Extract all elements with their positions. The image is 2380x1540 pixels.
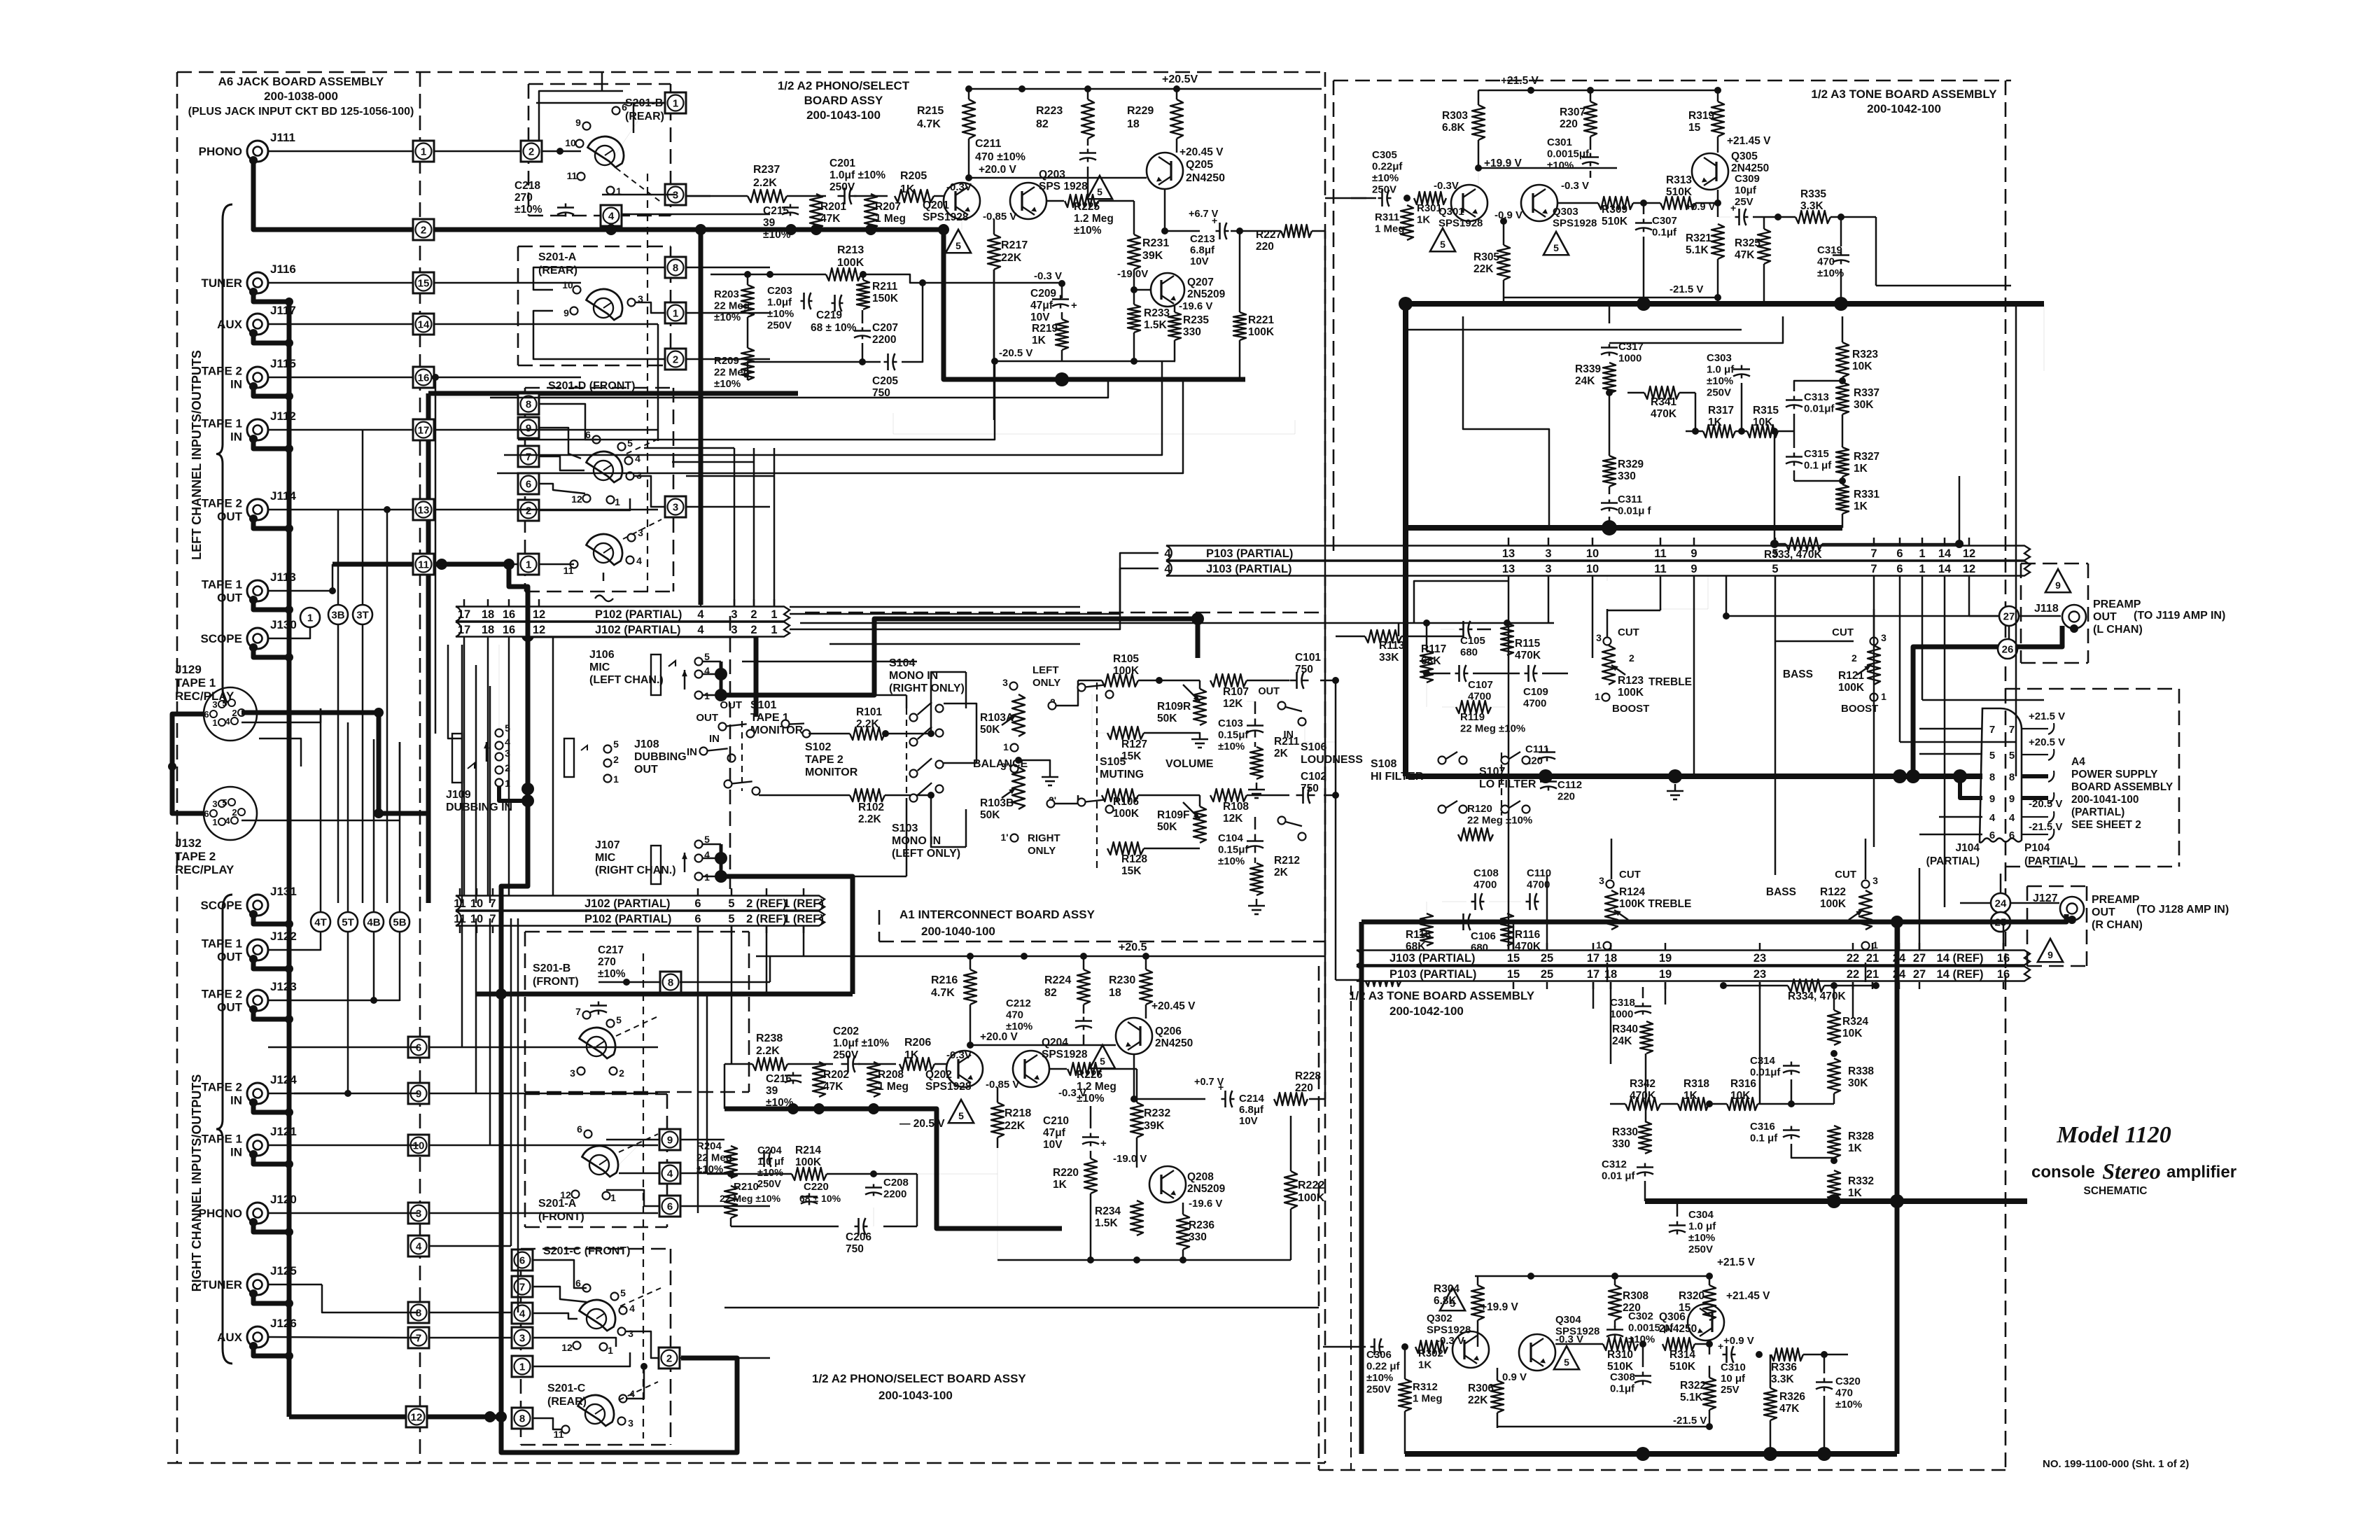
svg-text:-0.3V: -0.3V (1434, 180, 1459, 192)
svg-text:S201-C: S201-C (547, 1382, 586, 1394)
svg-text:C307: C307 (1652, 215, 1677, 227)
svg-text:6: 6 (1896, 547, 1903, 560)
wire bold phono J111 feed (249, 156, 258, 164)
svg-text:+20.45 V: +20.45 V (1151, 1000, 1196, 1012)
svg-text:J116: J116 (270, 262, 296, 276)
svg-text:27: 27 (1913, 952, 1926, 965)
connector pin 4 S201-B (601, 205, 622, 226)
svg-text:22: 22 (1847, 952, 1859, 965)
svg-text:3: 3 (1545, 563, 1551, 575)
svg-text:4: 4 (416, 1241, 422, 1253)
resistor R231 (1128, 234, 1140, 269)
assembly box S201-C group (521, 1248, 671, 1250)
svg-text:7: 7 (2009, 724, 2015, 736)
svg-text:10K: 10K (1842, 1028, 1863, 1039)
svg-text:P103 (PARTIAL): P103 (PARTIAL) (1389, 968, 1476, 981)
svg-text:510K: 510K (1666, 186, 1693, 198)
wavy break (595, 596, 613, 602)
svg-text:R224: R224 (1044, 974, 1071, 986)
svg-text:J127: J127 (2033, 892, 2058, 904)
capacitor C302 (1606, 1329, 1623, 1331)
wire +20 rail bottom q202 (970, 1044, 1116, 1046)
svg-text:J102 (PARTIAL): J102 (PARTIAL) (584, 897, 671, 910)
svg-text:R328: R328 (1848, 1130, 1874, 1142)
svg-text:-19.6 V: -19.6 V (1189, 1198, 1222, 1210)
svg-text:R310: R310 (1607, 1349, 1633, 1361)
rotary switch S201-B rear (585, 130, 630, 169)
svg-text:47μf: 47μf (1043, 1127, 1066, 1139)
svg-text:C106: C106 (1471, 930, 1496, 942)
resistor R341 (1644, 386, 1679, 399)
svg-text:-21.5 V: -21.5 V (1669, 283, 1703, 295)
svg-text:33K: 33K (1379, 652, 1399, 664)
wire (680, 1357, 770, 1359)
wire volume pot links (1199, 680, 1201, 689)
wire tone mid columns (1842, 316, 1844, 342)
svg-text:750: 750 (872, 387, 890, 399)
svg-text:14: 14 (1938, 547, 1952, 560)
svg-text:750: 750 (846, 1243, 864, 1255)
svg-text:(TO J119 AMP IN): (TO J119 AMP IN) (2134, 610, 2225, 622)
svg-text:S103: S103 (892, 822, 918, 834)
jack J124 TAPE 2 IN (247, 1083, 268, 1104)
wire C217 net (598, 981, 660, 983)
svg-text:TAPE 2: TAPE 2 (175, 850, 216, 863)
svg-text:0.01 μf: 0.01 μf (1602, 1170, 1636, 1182)
svg-text:R324: R324 (1842, 1016, 1868, 1028)
resistor R322 (1703, 1378, 1716, 1410)
capacitor C208 (865, 1186, 882, 1189)
svg-text:25V: 25V (1721, 1384, 1739, 1396)
svg-text:C206: C206 (846, 1231, 871, 1243)
svg-text:250V: 250V (757, 1179, 781, 1190)
svg-text:C103: C103 (1218, 717, 1243, 729)
wire scope drop (268, 627, 310, 638)
svg-text:8: 8 (2009, 771, 2015, 783)
svg-text:RIGHT CHANNEL INPUTS/OUTPUTS: RIGHT CHANNEL INPUTS/OUTPUTS (190, 1074, 204, 1292)
svg-text:TAPE 2: TAPE 2 (202, 988, 242, 1001)
node 25 overlay (1991, 912, 2010, 932)
svg-text:+21.5 V: +21.5 V (2029, 710, 2065, 722)
svg-text:±10%: ±10% (1218, 855, 1245, 867)
wire S201-B to pins (615, 112, 671, 155)
svg-text:4: 4 (1164, 563, 1171, 575)
svg-text:J107: J107 (595, 839, 620, 851)
svg-text:4: 4 (608, 211, 615, 223)
wire power supply stubs (2022, 728, 2048, 729)
wire bottom phono drop verticals (697, 926, 699, 1213)
svg-text:1K: 1K (1708, 416, 1723, 428)
wire (724, 1064, 726, 1109)
svg-text:9: 9 (2047, 949, 2053, 960)
wire (790, 553, 1158, 614)
svg-text:2K: 2K (1274, 867, 1289, 878)
capacitor C213 (1219, 223, 1221, 239)
svg-text:R337: R337 (1854, 387, 1879, 399)
svg-text:-19.6 V: -19.6 V (1179, 300, 1212, 312)
svg-text:R109R: R109R (1157, 701, 1191, 713)
svg-text:R205: R205 (900, 170, 927, 182)
svg-text:R323: R323 (1852, 349, 1878, 360)
wire (680, 981, 770, 983)
svg-text:26: 26 (2002, 644, 2014, 656)
svg-text:11: 11 (563, 565, 574, 576)
wire tone feeder lower (2003, 922, 2005, 951)
svg-text:12K: 12K (1223, 813, 1243, 825)
wire volume feeds (1052, 680, 1078, 706)
wire bold bottom bus (501, 1358, 737, 1452)
wire tone feeder (1774, 576, 1777, 875)
svg-text:510K: 510K (1669, 1361, 1696, 1373)
resistor R302 (1415, 1340, 1448, 1353)
svg-text:A6 JACK BOARD ASSEMBLY: A6 JACK BOARD ASSEMBLY (218, 75, 384, 88)
resistor R208 (867, 1062, 880, 1097)
wire (434, 282, 581, 284)
wire bold hook J130 (249, 643, 258, 652)
svg-text:7: 7 (1989, 724, 1995, 736)
wire pin2-rotary (542, 150, 581, 153)
svg-text:C318: C318 (1610, 997, 1635, 1009)
svg-text:R305: R305 (1473, 251, 1499, 263)
svg-text:RIGHT: RIGHT (1028, 832, 1060, 844)
wire center extra horizontals (742, 694, 906, 696)
wire 24 links (1960, 902, 1991, 904)
resistor R323 (1836, 342, 1849, 377)
svg-text:4T: 4T (314, 917, 327, 929)
svg-text:5: 5 (1100, 1056, 1105, 1067)
svg-text:82: 82 (1044, 987, 1057, 999)
svg-text:5: 5 (958, 1110, 964, 1121)
svg-text:1: 1 (613, 773, 619, 785)
wire strip riser (463, 637, 465, 896)
svg-text:11: 11 (1654, 563, 1666, 575)
svg-text:R214: R214 (795, 1144, 821, 1156)
svg-text:8: 8 (673, 262, 678, 274)
svg-text:10: 10 (1586, 547, 1599, 560)
svg-text:17: 17 (1587, 952, 1599, 965)
svg-text:19: 19 (1659, 952, 1672, 965)
capacitor C107 (1458, 665, 1460, 682)
svg-text:1: 1 (771, 624, 777, 636)
svg-text:(RIGHT CHAN.): (RIGHT CHAN.) (595, 864, 676, 876)
svg-text:0.01μf: 0.01μf (1804, 403, 1835, 415)
svg-text:-19.0 V: -19.0 V (1113, 1153, 1147, 1165)
wire bold hook J131 (249, 910, 258, 918)
wire (429, 1046, 658, 1049)
svg-text:-0.3 V: -0.3 V (1561, 180, 1589, 192)
svg-text:C204: C204 (757, 1145, 782, 1156)
resistor R309 (1598, 197, 1633, 209)
jack J123 TAPE 2 OUT (247, 990, 268, 1011)
svg-text:R229: R229 (1127, 105, 1154, 117)
svg-text:BOOST: BOOST (1841, 703, 1878, 715)
resistor R320 (1703, 1285, 1716, 1320)
svg-text:R342: R342 (1630, 1078, 1655, 1090)
svg-text:1K: 1K (1683, 1090, 1698, 1102)
wire bold -20.5 bus top (944, 230, 1245, 379)
svg-text:SPS1928: SPS1928 (1042, 1049, 1088, 1060)
svg-text:2: 2 (613, 754, 619, 765)
svg-text:C202: C202 (833, 1025, 859, 1037)
wire bold hook J125 (249, 1289, 258, 1298)
svg-text:R127: R127 (1121, 738, 1147, 750)
svg-text:+21.45 V: +21.45 V (1726, 1290, 1770, 1302)
svg-text:R211: R211 (872, 281, 898, 293)
wire R228 net (1309, 1098, 1325, 1100)
svg-text:R317: R317 (1708, 405, 1734, 416)
svg-text:1': 1' (1000, 832, 1008, 843)
svg-text:1.0 μf: 1.0 μf (1688, 1221, 1716, 1233)
svg-text:J117: J117 (270, 304, 296, 317)
svg-text:16: 16 (1997, 968, 2010, 981)
resistor R218 (991, 1102, 1004, 1137)
svg-text:C214: C214 (1239, 1093, 1265, 1105)
svg-text:R319: R319 (1688, 110, 1714, 122)
resistor R105 (1102, 674, 1138, 687)
capacitor C309 (1738, 209, 1740, 225)
wire Q207 base (1134, 289, 1151, 291)
svg-text:S201-B: S201-B (533, 962, 570, 974)
svg-text:1: 1 (1596, 939, 1602, 951)
svg-text:C215: C215 (763, 205, 789, 217)
wire (429, 1245, 511, 1247)
svg-text:15K: 15K (1121, 865, 1142, 877)
capacitor C317 (1601, 346, 1618, 349)
connector pin 2 S201-A (665, 349, 686, 370)
wire strip riser (552, 637, 554, 896)
wire bold phono-select horizontal (428, 391, 798, 396)
svg-text:0.1 μf: 0.1 μf (1750, 1133, 1778, 1144)
svg-text:J126: J126 (270, 1317, 297, 1330)
svg-text:17: 17 (458, 624, 470, 636)
svg-text:2K: 2K (1274, 748, 1289, 759)
svg-text:OUT: OUT (1258, 686, 1280, 697)
svg-text:R318: R318 (1683, 1078, 1709, 1090)
connector pin 14 (413, 314, 434, 335)
svg-text:NO. 199-1100-000 (Sht. 1 of 2): NO. 199-1100-000 (Sht. 1 of 2) (2043, 1458, 2189, 1470)
resistor R102 (850, 789, 885, 801)
capacitor C112 (1540, 780, 1557, 783)
assembly box S201-B rear (528, 83, 671, 85)
svg-text:22 Meg: 22 Meg (696, 1152, 732, 1164)
capacitor C319 (1833, 254, 1849, 256)
capacitor C103 (1247, 724, 1263, 727)
svg-text:6: 6 (694, 897, 701, 910)
wire (434, 563, 518, 566)
svg-text:22K: 22K (1473, 263, 1494, 275)
svg-text:SPS1928: SPS1928 (1553, 218, 1597, 230)
warning triangle 5 (1090, 1045, 1115, 1068)
transistor Q202 (946, 1051, 983, 1087)
capacitor C202 (847, 1056, 849, 1072)
wire tone feeder (1548, 576, 1550, 623)
svg-text:+: + (1718, 1340, 1723, 1352)
svg-text:2 (REF): 2 (REF) (746, 897, 787, 910)
svg-text:27: 27 (2003, 611, 2015, 623)
capacitor C207 (854, 330, 871, 332)
svg-text:3: 3 (212, 799, 217, 809)
svg-text:3T: 3T (356, 610, 369, 622)
wire S201-C wires (533, 1260, 587, 1288)
svg-text:6: 6 (577, 1123, 582, 1135)
svg-text:6: 6 (694, 913, 701, 925)
svg-text:6: 6 (204, 808, 209, 819)
pin 2 volume (1049, 702, 1056, 710)
svg-text:R123: R123 (1618, 675, 1644, 687)
svg-text:+20.5V: +20.5V (1162, 73, 1198, 85)
svg-text:BOARD ASSEMBLY: BOARD ASSEMBLY (2071, 781, 2173, 793)
svg-text:14: 14 (418, 319, 430, 331)
resistor R332 (1828, 1170, 1840, 1203)
svg-text:22 Meg: 22 Meg (714, 300, 750, 312)
resistor R116 (1501, 913, 1513, 946)
node 25 (1991, 912, 2010, 932)
assembly box tone board top (1333, 80, 2011, 82)
DIN connector J132 tape 2 rec/play (204, 787, 257, 840)
wire bold hook J124 (249, 1098, 258, 1107)
svg-text:TREBLE: TREBLE (1648, 676, 1692, 688)
resistor R215 (962, 99, 975, 139)
svg-text:18: 18 (482, 608, 494, 621)
warning triangle 5 (1543, 232, 1569, 255)
svg-text:IN: IN (230, 430, 242, 444)
svg-text:C319: C319 (1817, 244, 1842, 256)
svg-text:J123: J123 (270, 980, 297, 993)
svg-text:47K: 47K (1779, 1403, 1800, 1415)
svg-text:P102 (PARTIAL): P102 (PARTIAL) (584, 913, 671, 925)
switch S108 hi filter (1438, 757, 1446, 764)
svg-text:Q207: Q207 (1187, 276, 1214, 288)
svg-text:9: 9 (1690, 563, 1697, 575)
wire phono eq net bottom (707, 1173, 792, 1175)
svg-text:C213: C213 (1190, 233, 1215, 245)
svg-text:5: 5 (704, 651, 710, 662)
svg-text:3: 3 (1002, 677, 1008, 688)
svg-text:R335: R335 (1800, 188, 1826, 200)
svg-text:22 Meg: 22 Meg (714, 367, 750, 379)
capacitor C307 (1635, 222, 1652, 224)
svg-text:17: 17 (1587, 968, 1599, 981)
svg-text:R203: R203 (714, 288, 739, 300)
svg-text:9: 9 (1690, 547, 1697, 560)
assembly box tone board bottom (1318, 966, 1320, 1470)
resistor R230 (1140, 969, 1152, 1004)
svg-text:SEE SHEET 2: SEE SHEET 2 (2071, 819, 2141, 831)
svg-text:3: 3 (628, 1328, 633, 1339)
transistor Q302 (1452, 1331, 1489, 1368)
svg-text:R327: R327 (1854, 451, 1879, 463)
connector pin 16 (413, 367, 434, 388)
svg-text:7: 7 (1870, 547, 1877, 560)
svg-text:(PLUS JACK INPUT CKT BD 125-10: (PLUS JACK INPUT CKT BD 125-1056-100) (188, 106, 414, 118)
wire C305 input (1351, 197, 1376, 199)
svg-text:C107: C107 (1468, 679, 1493, 691)
svg-text:27: 27 (1913, 968, 1926, 981)
jack J131 SCOPE (247, 895, 268, 916)
svg-text:C104: C104 (1218, 832, 1244, 844)
svg-text:+6.7 V: +6.7 V (1189, 209, 1219, 220)
svg-text:1: 1 (212, 817, 217, 827)
svg-text:MUTING: MUTING (1100, 769, 1144, 780)
transistor Q207 (1151, 273, 1184, 307)
wire -20.5 bottom rail (995, 360, 1175, 363)
wire bold 25 link (2010, 914, 2066, 922)
wire bold -20.5 bus bottom (724, 1109, 1062, 1228)
svg-text:R320: R320 (1679, 1290, 1704, 1302)
svg-text:16: 16 (503, 608, 515, 621)
svg-text:10V: 10V (1190, 255, 1209, 267)
svg-text:17: 17 (458, 608, 470, 621)
connector pin 1 S201-B (665, 92, 686, 113)
svg-text:REC/PLAY: REC/PLAY (175, 863, 234, 876)
svg-text:J130: J130 (270, 618, 297, 631)
resistor R204 (724, 1146, 737, 1178)
resistor R114 (1365, 974, 1401, 986)
transistor Q303 (1521, 185, 1557, 221)
wire R225 right (1098, 200, 1134, 202)
svg-text:SCHEMATIC: SCHEMATIC (2084, 1185, 2148, 1197)
svg-text:S108: S108 (1371, 758, 1396, 770)
DIN connector J129 tape 1 rec/play (204, 687, 257, 741)
capacitor C315 (1786, 456, 1802, 458)
svg-text:(LEFT CHAN.): (LEFT CHAN.) (589, 674, 664, 686)
connector pin 2 (413, 219, 434, 240)
svg-text:470K: 470K (1515, 650, 1541, 661)
wire bold hook J122 (249, 955, 258, 963)
svg-text:R107: R107 (1223, 686, 1249, 698)
svg-text:1: 1 (608, 1345, 613, 1356)
svg-text:16: 16 (1997, 952, 2010, 965)
svg-text:R316: R316 (1730, 1078, 1756, 1090)
svg-text:100K TREBLE: 100K TREBLE (1619, 898, 1691, 910)
warning triangle 9 (2045, 569, 2071, 592)
resistor R342 (1625, 1098, 1660, 1110)
svg-text:10V: 10V (1043, 1139, 1063, 1151)
wire bold mic join (715, 668, 727, 680)
capacitor C304 (1669, 1224, 1686, 1226)
svg-text:C310: C310 (1721, 1361, 1746, 1373)
wire bold center ground bus (1406, 773, 1982, 779)
svg-text:1: 1 (1595, 691, 1600, 702)
svg-text:3: 3 (1872, 875, 1878, 886)
svg-text:17: 17 (418, 425, 430, 437)
wire jack feed to pin 13 (268, 509, 423, 511)
capacitor C311 (1601, 502, 1618, 504)
resistor R304 (1471, 1285, 1484, 1320)
svg-text:3.3K: 3.3K (1771, 1373, 1795, 1385)
svg-text:±10%: ±10% (714, 378, 741, 390)
svg-text:2 (REF): 2 (REF) (746, 913, 787, 925)
svg-text:R220: R220 (1053, 1167, 1079, 1179)
resistor R237 (748, 190, 787, 202)
svg-text:J108: J108 (634, 738, 659, 750)
svg-text:J125: J125 (270, 1264, 297, 1277)
wire bold tone mid bus (1406, 525, 1842, 531)
capacitor C211 (1079, 152, 1096, 154)
jack J109 dubbing in (452, 734, 462, 783)
svg-text:9: 9 (575, 117, 581, 128)
wire +20.5 rail bottom (756, 955, 1176, 958)
resistor R210 (724, 1186, 737, 1218)
connector pin 15 (413, 272, 434, 293)
svg-text:R103A: R103A (980, 712, 1014, 724)
resistor R106 (1102, 789, 1138, 801)
wire bold tone right drop (1895, 922, 1900, 1454)
svg-text:10K: 10K (1852, 360, 1872, 372)
wire 5T riser (347, 742, 349, 912)
wire tone feeder lower (1759, 982, 1761, 1104)
wire jack feed to pin 17 (268, 429, 423, 431)
